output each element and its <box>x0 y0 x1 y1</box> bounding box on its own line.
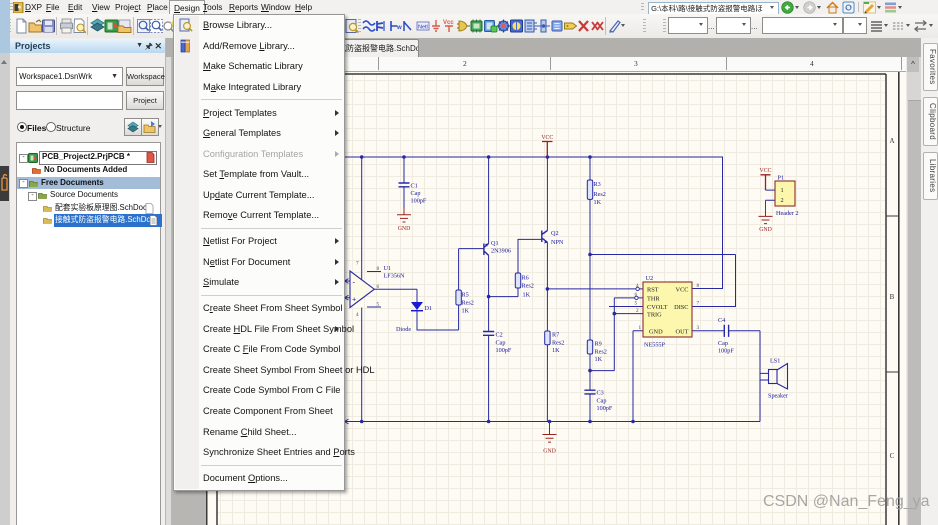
svg-text:U2: U2 <box>646 275 654 282</box>
svg-text:+: + <box>352 295 356 304</box>
svg-text:Res2: Res2 <box>552 340 564 347</box>
svg-text:1K: 1K <box>462 308 470 315</box>
svg-text:P1: P1 <box>778 175 785 182</box>
svg-text:Cap: Cap <box>718 340 728 347</box>
svg-text:1K: 1K <box>595 356 603 363</box>
svg-text:1: 1 <box>639 325 642 331</box>
svg-text:Res2: Res2 <box>594 191 606 198</box>
svg-text:GND: GND <box>649 329 663 336</box>
svg-text:5: 5 <box>635 301 638 307</box>
svg-text:100pF: 100pF <box>496 347 512 354</box>
svg-text:Speaker: Speaker <box>768 393 788 400</box>
svg-text:Header 2: Header 2 <box>776 210 799 217</box>
svg-text:6: 6 <box>635 292 638 298</box>
svg-text:4: 4 <box>636 283 639 289</box>
svg-text:LF356N: LF356N <box>384 273 406 280</box>
svg-text:7: 7 <box>697 301 700 307</box>
svg-text:VCC: VCC <box>676 287 689 294</box>
svg-text:R5: R5 <box>462 292 469 299</box>
svg-text:1: 1 <box>781 187 784 194</box>
svg-text:D1: D1 <box>425 305 433 312</box>
svg-text:Res2: Res2 <box>522 283 534 290</box>
svg-text:GND: GND <box>543 449 556 455</box>
svg-text:Cap: Cap <box>496 340 506 347</box>
svg-text:Cap: Cap <box>597 398 607 405</box>
svg-text:1K: 1K <box>523 292 531 299</box>
svg-text:8: 8 <box>377 266 380 272</box>
svg-text:NPN: NPN <box>551 239 564 246</box>
svg-text:C2: C2 <box>496 332 503 339</box>
svg-text:THR: THR <box>647 296 660 303</box>
svg-text:w: w <box>396 25 402 31</box>
svg-text:A: A <box>889 137 894 145</box>
svg-text:Q2: Q2 <box>551 230 559 237</box>
svg-text:LS1: LS1 <box>770 358 780 365</box>
svg-text:C3: C3 <box>597 390 604 397</box>
svg-text:R9: R9 <box>595 341 602 348</box>
svg-text:GND: GND <box>759 227 772 233</box>
svg-text:100pF: 100pF <box>718 348 734 355</box>
svg-text:VCC: VCC <box>760 168 772 174</box>
svg-text:Q1: Q1 <box>491 240 499 247</box>
svg-text:2N3906: 2N3906 <box>491 248 511 255</box>
svg-text:NE555P: NE555P <box>644 342 666 349</box>
svg-text:OUT: OUT <box>676 329 689 336</box>
svg-text:C: C <box>890 452 895 460</box>
svg-text:C1: C1 <box>411 183 418 190</box>
svg-text:5: 5 <box>377 302 380 308</box>
svg-text:R7: R7 <box>552 332 559 339</box>
svg-text:1K: 1K <box>552 347 560 354</box>
svg-text:2: 2 <box>636 308 639 314</box>
svg-text:100pF: 100pF <box>411 198 427 205</box>
svg-text:R6: R6 <box>522 275 529 282</box>
svg-text:3: 3 <box>697 325 700 331</box>
svg-text:Res2: Res2 <box>462 300 474 307</box>
svg-text:7: 7 <box>356 261 359 267</box>
svg-text:1K: 1K <box>594 199 602 206</box>
svg-text:100pF: 100pF <box>597 405 613 412</box>
svg-text:RST: RST <box>647 287 659 294</box>
svg-text:U1: U1 <box>384 265 392 272</box>
svg-text:B: B <box>890 293 895 301</box>
svg-text:Diode: Diode <box>396 326 411 333</box>
svg-text:6: 6 <box>377 284 380 290</box>
svg-text:GND: GND <box>398 226 411 232</box>
svg-text:Res2: Res2 <box>595 349 607 356</box>
svg-text:DISC: DISC <box>674 304 688 311</box>
svg-text:2: 2 <box>781 197 784 204</box>
svg-text:R3: R3 <box>594 181 601 188</box>
svg-text:TRIG: TRIG <box>647 311 662 318</box>
svg-text:8: 8 <box>697 283 700 289</box>
svg-text:C4: C4 <box>718 317 725 324</box>
svg-text:Netl: Netl <box>418 25 428 31</box>
svg-text:VCC: VCC <box>541 135 553 141</box>
svg-text:CVOLT: CVOLT <box>647 304 668 311</box>
svg-text:Cap: Cap <box>411 190 421 197</box>
svg-text:Vcc: Vcc <box>443 20 454 26</box>
svg-text:4: 4 <box>356 312 359 318</box>
